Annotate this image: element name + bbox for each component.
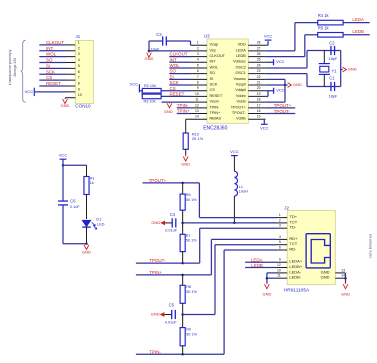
svg-text:1: 1 [197, 41, 199, 45]
svg-text:50 1%: 50 1% [186, 239, 197, 243]
svg-text:U3: U3 [204, 33, 210, 38]
RJ45 jack symbol [306, 234, 330, 268]
U3 pin 3 CLKOUT [191, 56, 208, 58]
svg-text:R10: R10 [192, 132, 199, 136]
J2 pin 1 TD+ [277, 217, 287, 219]
svg-text:TPIN+: TPIN+ [177, 109, 190, 114]
svg-text:18pF: 18pF [329, 57, 338, 61]
svg-text:J2: J2 [284, 206, 289, 211]
svg-text:R5 1k: R5 1k [318, 25, 330, 30]
svg-text:7: 7 [197, 75, 199, 79]
wire net TPOUT+ [143, 182, 200, 184]
wire net LEDB to J2 [245, 267, 277, 269]
resistor R5 1k [318, 33, 343, 38]
svg-text:10: 10 [78, 93, 82, 97]
J1 pin 2 [39, 50, 66, 52]
svg-text:TPIN-: TPIN- [177, 103, 189, 108]
wire C3 to ground and Vss pin 2 [149, 40, 163, 42]
wire TPOUT+ to TD+ [198, 183, 200, 218]
svg-text:GND: GND [348, 67, 357, 72]
power VCC at J1 pin 9 [33, 88, 35, 96]
svg-text:16: 16 [257, 109, 261, 113]
wire net TPIN- [136, 353, 224, 355]
svg-text:GND: GND [181, 162, 190, 167]
wire L1 to center tap [233, 196, 235, 223]
svg-text:TD-: TD- [289, 225, 296, 230]
svg-text:1: 1 [279, 213, 281, 217]
ground at crystal [341, 69, 343, 71]
svg-text:C4: C4 [170, 212, 176, 217]
svg-text:RESET: RESET [210, 94, 223, 98]
svg-text:24: 24 [257, 63, 261, 67]
svg-text:TPOUT+: TPOUT+ [231, 105, 247, 109]
svg-text:SI: SI [46, 63, 50, 68]
svg-text:TD+: TD+ [289, 214, 297, 219]
svg-text:Vss: Vss [210, 48, 216, 52]
U3 pin 24 OSC2 [248, 67, 265, 69]
wire TPIN- pin 12 [177, 107, 191, 109]
svg-text:GND: GND [321, 275, 330, 280]
U3 pin 13 TPIN+ [191, 113, 208, 115]
svg-text:ENC28J60: ENC28J60 [203, 125, 227, 131]
svg-text:14: 14 [195, 115, 199, 119]
svg-text:22: 22 [257, 75, 261, 79]
connector J2 RJ45 box [287, 211, 335, 285]
svg-text:сеть Ethernet: сеть Ethernet [368, 233, 373, 258]
U3 pin 4 INT [191, 61, 208, 63]
svg-text:14: 14 [341, 274, 345, 278]
svg-text:TPIN-: TPIN- [210, 105, 221, 109]
svg-text:SO: SO [170, 69, 177, 74]
svg-text:Atmega 328: Atmega 328 [13, 58, 17, 77]
U3 pin 9 CS [191, 90, 208, 92]
capacitor C3 10uF [162, 36, 164, 45]
svg-text:TPOUT+: TPOUT+ [149, 178, 167, 183]
ground at Vssrx [169, 102, 171, 103]
wire Vssosc Vsspll Vsstx to ground [265, 78, 285, 80]
inductor L1 10uH [233, 156, 235, 172]
svg-text:4: 4 [197, 58, 199, 62]
wire net LEDA to J2 [245, 261, 277, 263]
wire LED cathodes to ground [267, 272, 277, 274]
svg-text:1k: 1k [90, 181, 94, 185]
wire LED block bottom [63, 243, 87, 245]
svg-text:VCC: VCC [264, 33, 273, 38]
svg-text:28: 28 [257, 41, 261, 45]
svg-text:R1: R1 [90, 176, 95, 180]
wire net SCK [169, 84, 190, 86]
svg-text:11: 11 [195, 98, 199, 102]
svg-text:C1: C1 [329, 76, 335, 81]
U3 pin 21 Vsspll [248, 84, 265, 86]
svg-text:Y1: Y1 [332, 69, 338, 74]
U3 pin 25 Vddosc [248, 61, 265, 63]
J2 pin 3 TD- [277, 227, 287, 229]
svg-text:18: 18 [257, 98, 261, 102]
svg-text:R7: R7 [186, 234, 191, 238]
svg-text:C2: C2 [329, 40, 335, 45]
svg-text:GND: GND [61, 103, 70, 108]
wire RCT to C5 junction [215, 244, 277, 246]
svg-text:0.01uF: 0.01uF [165, 229, 178, 233]
ground at C4 [161, 221, 165, 225]
U3 pin 28 VDD [248, 44, 265, 46]
svg-text:2: 2 [279, 218, 281, 222]
U3 pin 5 WOL [191, 67, 208, 69]
svg-text:Vcap: Vcap [210, 43, 219, 47]
wire Vddpll Vddrx to VCC [265, 90, 273, 92]
svg-text:TPOUT-: TPOUT- [232, 111, 247, 115]
wire Vcap to C3 [190, 41, 192, 45]
svg-text:Vsstx: Vsstx [237, 100, 246, 104]
svg-text:0.1uF: 0.1uF [70, 205, 80, 209]
ground at Vsspll [285, 84, 288, 86]
resistor R9 50 1% [182, 315, 184, 328]
svg-text:LEDA: LEDA [251, 258, 263, 263]
svg-text:LEDB: LEDB [352, 29, 364, 34]
svg-text:LEDB: LEDB [251, 263, 263, 268]
svg-text:D1: D1 [96, 218, 101, 222]
svg-text:23: 23 [257, 69, 261, 73]
svg-text:4: 4 [279, 235, 281, 239]
capacitor C6 0.1uF [62, 165, 64, 201]
J1 pin 4 [39, 62, 66, 64]
svg-text:4: 4 [78, 58, 80, 62]
svg-text:INT: INT [210, 60, 217, 64]
svg-text:12: 12 [277, 263, 281, 267]
svg-text:WOL: WOL [210, 65, 219, 69]
svg-text:3: 3 [279, 224, 281, 228]
U3 pin 1 Vcap [191, 44, 208, 46]
svg-text:17: 17 [257, 103, 261, 107]
capacitor C1 18pF [330, 82, 332, 91]
svg-text:RD+: RD+ [289, 236, 298, 241]
node L1 TCT junction [233, 222, 236, 225]
svg-text:VDD: VDD [238, 43, 246, 47]
svg-text:RD-: RD- [289, 246, 297, 251]
svg-text:RESET: RESET [170, 92, 185, 97]
node VCC junction [62, 164, 65, 167]
brace to microcontroller [21, 40, 26, 102]
ground at C5 [160, 313, 164, 317]
svg-text:TPOUT+: TPOUT+ [274, 103, 292, 108]
resistor R3 10k pull-up on RESET [161, 95, 190, 97]
U3 pin 11 Vssrx [191, 101, 208, 103]
wire TPOUT- to TD- [200, 227, 277, 229]
resistor R8 50 1% [182, 275, 184, 285]
wire R5 to LEDB label [343, 34, 370, 36]
wire LEDA from pin 27 [265, 50, 295, 52]
svg-text:R6: R6 [186, 193, 191, 197]
J1 pin 5 [39, 67, 66, 69]
svg-text:OSC2: OSC2 [235, 65, 245, 69]
wire Vddosc pin 25 to VCC [265, 61, 273, 63]
resistor R10 2K 1% [183, 133, 188, 149]
svg-text:9: 9 [197, 86, 199, 90]
capacitor C4 0.01uF [171, 218, 173, 227]
svg-text:10uH: 10uH [239, 190, 248, 194]
svg-text:6: 6 [197, 69, 199, 73]
svg-text:RESET: RESET [46, 81, 61, 86]
svg-text:21: 21 [257, 81, 261, 85]
svg-text:13: 13 [341, 268, 345, 272]
ground at C3 [148, 51, 150, 52]
svg-text:GND: GND [293, 82, 302, 87]
J1 pin 7 [39, 79, 66, 81]
svg-text:10: 10 [195, 92, 199, 96]
U3 pin 27 LEDA [248, 50, 265, 52]
J2 pin 5 TCT [277, 244, 287, 246]
svg-text:GND: GND [262, 292, 271, 297]
svg-text:2: 2 [78, 46, 80, 50]
svg-text:VCC: VCC [260, 125, 269, 130]
svg-text:GND: GND [321, 269, 330, 274]
power VCC at L1 [231, 155, 238, 157]
svg-text:Vssosc: Vssosc [234, 77, 246, 81]
svg-text:6: 6 [279, 246, 281, 250]
U3 pin 18 Vsstx [248, 101, 265, 103]
U3 pin 7 SI [191, 78, 208, 80]
J2 pin 4 RD+ [277, 238, 287, 240]
power VCC at Vddtx [261, 123, 268, 125]
wire LEDB from pin 26 [265, 56, 305, 58]
ground at J2 shield [345, 283, 347, 284]
svg-text:LEDB: LEDB [236, 54, 246, 58]
power VCC at Vddpll [273, 88, 275, 94]
wire net INT [169, 61, 190, 63]
svg-text:50 1%: 50 1% [186, 332, 197, 336]
svg-text:CLKOUT: CLKOUT [170, 52, 188, 57]
svg-text:CS: CS [46, 75, 52, 80]
svg-text:INT: INT [170, 57, 177, 62]
svg-text:6: 6 [78, 70, 80, 74]
U3 pin 22 Vssosc [248, 78, 265, 80]
svg-text:25: 25 [257, 58, 261, 62]
svg-text:Vsspll: Vsspll [236, 83, 246, 87]
svg-text:GND: GND [341, 292, 350, 297]
svg-text:TPOUT-: TPOUT- [274, 109, 291, 114]
svg-text:3: 3 [78, 52, 80, 56]
svg-text:11: 11 [277, 274, 281, 278]
svg-text:9: 9 [78, 87, 80, 91]
svg-text:10: 10 [277, 268, 281, 272]
svg-text:SO: SO [210, 71, 216, 75]
svg-text:2K 1%: 2K 1% [192, 137, 204, 141]
svg-text:SCK: SCK [170, 80, 179, 85]
connector J1 CON10 box [75, 41, 93, 104]
resistor R1 1k [86, 165, 88, 176]
svg-text:CS: CS [170, 86, 176, 91]
svg-text:50 1%: 50 1% [186, 290, 197, 294]
svg-text:2: 2 [197, 46, 199, 50]
U3 pin 10 RESET [191, 95, 208, 97]
wire R2 R3 left join to VCC [141, 91, 143, 97]
power VCC at VDD [265, 39, 272, 41]
svg-text:5: 5 [78, 64, 80, 68]
svg-text:R4 1k: R4 1k [318, 13, 330, 18]
wire R10 to ground [185, 149, 187, 155]
svg-text:LEDA: LEDA [236, 48, 246, 52]
J2 pin 13 GND [335, 272, 345, 274]
svg-text:LEDB-: LEDB- [289, 275, 301, 280]
svg-text:0.01uF: 0.01uF [165, 320, 178, 324]
svg-text:L1: L1 [239, 185, 243, 189]
node center tap TCT [181, 222, 184, 225]
svg-text:VCC: VCC [25, 89, 34, 94]
node center tap RCT [181, 313, 184, 316]
wire TPOUT+ from pin 17 [265, 107, 295, 109]
wire TPIN+ to RD+ [210, 239, 212, 275]
svg-text:R9: R9 [186, 328, 191, 332]
wire TPOUT- from pin 16 [265, 113, 295, 115]
capacitor C2 18pF [330, 46, 332, 55]
J2 pin 9 LEDA+ [277, 261, 287, 263]
power VCC at Vddosc [273, 59, 275, 65]
svg-text:8: 8 [197, 81, 199, 85]
svg-text:LED: LED [97, 223, 105, 227]
wire net SO [169, 73, 190, 75]
svg-text:12: 12 [195, 103, 199, 107]
wire Vssrx pin 11 [162, 101, 191, 103]
U3 pin 23 OSC1 [248, 73, 265, 75]
svg-text:C6: C6 [70, 199, 76, 204]
svg-text:CS: CS [210, 88, 216, 92]
node LED ground junction [85, 242, 88, 245]
svg-text:VCC: VCC [230, 149, 239, 154]
svg-text:9: 9 [279, 258, 281, 262]
U3 pin 20 Vddpll [248, 90, 265, 92]
svg-text:27: 27 [257, 46, 261, 50]
resistor R4 1k [318, 20, 343, 25]
svg-text:Vddosc: Vddosc [233, 60, 246, 64]
wire VDD pin 28 to VCC [265, 44, 268, 46]
svg-text:VCC: VCC [59, 152, 68, 157]
svg-text:TCT: TCT [289, 241, 297, 246]
svg-text:SO: SO [46, 58, 53, 63]
wire J2 shield ground [345, 273, 347, 283]
J2 pin 10 LEDA- [277, 272, 287, 274]
power VCC at R2 R3 [138, 84, 140, 92]
svg-text:C3: C3 [156, 32, 162, 37]
svg-text:13: 13 [195, 109, 199, 113]
svg-text:TPIN-: TPIN- [149, 349, 161, 354]
svg-text:TPIN+: TPIN+ [149, 270, 162, 275]
U3 pin 16 TPOUT- [248, 113, 265, 115]
svg-text:C5: C5 [169, 303, 175, 308]
U3 pin 6 SO [191, 73, 208, 75]
wire TPIN+ pin 13 [177, 113, 191, 115]
svg-text:1: 1 [78, 40, 80, 44]
J1 pin 1 [39, 44, 66, 46]
U3 pin 8 SCK [191, 84, 208, 86]
ground at R10 [185, 155, 187, 156]
svg-text:INT: INT [46, 46, 53, 51]
svg-text:26: 26 [257, 52, 261, 56]
svg-text:TPIN+: TPIN+ [210, 111, 222, 115]
IC U3 ENC28J60 box [207, 39, 248, 123]
svg-text:Vddpll: Vddpll [235, 88, 246, 92]
svg-text:CON10: CON10 [75, 104, 91, 109]
svg-text:5: 5 [279, 240, 281, 244]
svg-text:Vssrx: Vssrx [210, 100, 220, 104]
wire OSC2 to crystal [265, 67, 307, 69]
wire net TPIN+ [136, 274, 212, 276]
svg-text:Vddtx: Vddtx [236, 117, 246, 121]
J2 pin 11 LEDB- [277, 277, 287, 279]
svg-text:GND: GND [151, 311, 160, 316]
power VCC at LED block [60, 158, 67, 160]
svg-text:SI: SI [170, 74, 174, 79]
LED D1 [86, 195, 88, 220]
svg-text:HR911105A: HR911105A [284, 287, 310, 293]
svg-text:SI: SI [210, 77, 214, 81]
svg-text:CLKOUT: CLKOUT [210, 54, 226, 58]
wire crystal right side [340, 51, 342, 87]
svg-text:R2 10k: R2 10k [144, 84, 156, 88]
wire net TPOUT- [136, 262, 200, 264]
node TPOUT+ R6 [181, 182, 184, 185]
svg-text:TCT: TCT [289, 219, 297, 224]
svg-text:R8: R8 [186, 285, 191, 289]
svg-text:GND: GND [164, 109, 173, 114]
svg-text:GND: GND [82, 250, 91, 255]
svg-text:TPOUT-: TPOUT- [149, 258, 166, 263]
J1 pin 10 [65, 97, 66, 99]
svg-text:LEDA-: LEDA- [289, 269, 301, 274]
node Vsspll junction [284, 84, 287, 87]
resistor R2 10k pull-up on CS [161, 90, 190, 92]
svg-text:VCC: VCC [130, 82, 139, 87]
svg-text:R3 10k: R3 10k [144, 100, 156, 104]
svg-text:19: 19 [257, 92, 261, 96]
wire R4 to LEDA label [343, 22, 370, 24]
svg-text:J1: J1 [76, 34, 81, 39]
svg-text:LEDA: LEDA [352, 17, 364, 22]
node TPIN+ R8 [181, 274, 184, 277]
svg-text:VCC: VCC [276, 59, 285, 64]
ground at J1 pin 10 [64, 98, 66, 99]
svg-text:7: 7 [78, 76, 80, 80]
wire Vddtx pin 15 to VCC [264, 118, 265, 120]
wire TCT center tap to J2 [183, 222, 277, 224]
J1 pin 6 [39, 73, 66, 75]
svg-text:к микроконтроллеру: к микроконтроллеру [8, 50, 12, 86]
J1 pin 9 [35, 91, 66, 93]
J2 pin 2 TCT [277, 222, 287, 224]
svg-text:GND: GND [151, 220, 160, 225]
svg-text:20: 20 [257, 86, 261, 90]
node TPIN- R9 [181, 353, 184, 356]
U3 pin 2 Vss [191, 50, 208, 52]
wire net CLKOUT [169, 56, 190, 58]
svg-text:15: 15 [257, 115, 261, 119]
svg-text:WOL: WOL [46, 52, 57, 57]
svg-text:WOL: WOL [170, 63, 181, 68]
capacitor C5 0.01uF [171, 310, 173, 319]
node Vss C3 junction [148, 50, 151, 53]
U3 pin 14 RBIAS [191, 118, 208, 120]
svg-text:RBIAS: RBIAS [210, 117, 222, 121]
J2 pin 14 GND [335, 277, 345, 279]
svg-text:5: 5 [197, 63, 199, 67]
svg-text:SCK: SCK [210, 83, 218, 87]
wire LED block top [63, 164, 87, 166]
wire TPIN- to RD- [223, 250, 225, 354]
wire net WOL [169, 67, 190, 69]
svg-text:CLKOUT: CLKOUT [46, 40, 64, 45]
svg-text:Vddrx: Vddrx [236, 94, 246, 98]
svg-text:50 1%: 50 1% [186, 198, 197, 202]
